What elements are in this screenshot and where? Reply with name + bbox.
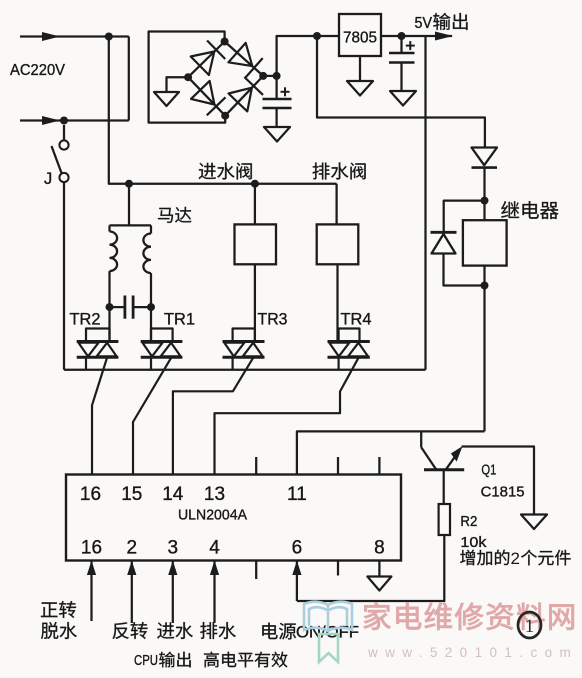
svg-text:7805: 7805 (343, 30, 377, 47)
node: motor left leg (106, 303, 114, 311)
node: inlet valve feed junction (251, 180, 259, 188)
watermark site name (364, 603, 574, 630)
svg-text:15: 15 (121, 484, 142, 505)
svg-text:6: 6 (292, 538, 303, 559)
svg-text:CPU: CPU (134, 653, 158, 669)
diode bridge D4 (bottom-right arm) (229, 77, 264, 111)
pin label 6 (292, 538, 303, 559)
wire: bridge diamond edges (188, 42, 263, 116)
label drain valve (313, 162, 366, 179)
wire: triac common rail to AC (64, 369, 426, 371)
label ULN2004A (178, 507, 247, 524)
triac TR4 (215, 329, 370, 475)
label TR1 (164, 311, 195, 329)
label AC220V (10, 62, 65, 79)
ground: bridge minus (154, 92, 179, 106)
label J (44, 170, 52, 188)
svg-text:TR2: TR2 (70, 311, 101, 329)
watermark book icon (304, 602, 352, 662)
regulator U2 7805 (339, 14, 381, 56)
valve V1 (jinshuifa inlet) (235, 184, 277, 342)
label C1815 (481, 484, 525, 501)
node: motor right leg (147, 303, 155, 311)
pin label 14 (162, 484, 184, 505)
node: bridge left (184, 73, 192, 81)
label inlet valve (199, 162, 252, 179)
ground: C1 (264, 127, 290, 142)
capacitor C3 (motor phase) (110, 296, 152, 319)
label TR2 (70, 311, 101, 329)
transistor Q1 C1815 (NPN) (421, 431, 464, 469)
svg-text:TR3: TR3 (258, 311, 288, 329)
label Q1 (481, 462, 496, 479)
pin label 15 (121, 484, 142, 505)
wire: CPU input forward/spin (87, 561, 96, 622)
label TR4 (341, 311, 372, 329)
label water-in (jinshui) (157, 622, 193, 639)
wire: CPU input drain (210, 561, 219, 624)
label motor (mada) (158, 207, 191, 223)
pin label 4 (209, 538, 220, 559)
label forward (zhengzhuan) (41, 601, 76, 618)
svg-text:J: J (44, 170, 52, 188)
wire: freewheel branch bottom (444, 254, 485, 286)
node: relay bottom junction (481, 282, 489, 290)
wire: D5 to relay top (483, 168, 485, 201)
svg-text:4: 4 (209, 538, 220, 559)
wire: switch to triac common rail (63, 182, 65, 370)
svg-text:5V: 5V (415, 15, 433, 32)
wire: AC line 1 (top) (20, 32, 129, 41)
pin stub top (pin 9) (378, 457, 380, 475)
svg-text:C1815: C1815 (481, 484, 525, 501)
svg-text:1: 1 (525, 616, 535, 637)
wire: pin 8 ground lead (378, 561, 380, 577)
label reverse (fanzhuan) (113, 622, 148, 639)
svg-text:3: 3 (168, 538, 179, 559)
svg-text:11: 11 (287, 484, 307, 505)
wire: CPU input water in (168, 561, 177, 624)
motor M (mada) windings (110, 225, 152, 307)
capacitor C2 (5V filter, electrolytic) (389, 36, 415, 91)
label 10k (460, 534, 487, 551)
svg-text:14: 14 (162, 484, 184, 505)
label spin (tuoshui) (41, 622, 77, 639)
ground: 7805 (347, 81, 373, 96)
triac TR1 (133, 329, 182, 475)
wire: motor legs to TR2/TR1 (110, 307, 152, 341)
node: bridge right (259, 72, 267, 80)
diode bridge D1 (left-top arm) (191, 41, 226, 76)
pin label 3 (168, 538, 179, 559)
figure number circled 1 (518, 612, 541, 638)
wire: Q1 emitter to ground (462, 447, 535, 515)
wire: 7805 output to 5V arrow (381, 32, 453, 41)
pin stub bottom (pin 5) (255, 561, 257, 580)
svg-text:AC220V: AC220V (10, 62, 65, 79)
pin stub top (pin 12) (255, 457, 257, 475)
svg-text:R2: R2 (460, 513, 477, 530)
svg-text:16: 16 (81, 538, 102, 559)
label drain (paishui) (200, 622, 236, 639)
svg-text:16: 16 (80, 484, 101, 505)
switch J (52, 125, 69, 182)
wire: bridge minus to ground (167, 77, 189, 92)
node: junction on AC line 2 at switch (60, 117, 68, 125)
svg-text:13: 13 (204, 484, 225, 505)
label added 2 components (460, 549, 570, 568)
pin label 8 (374, 538, 385, 559)
label TR3 (258, 311, 288, 329)
wire: bridge plus output up to 7805 input (263, 36, 339, 76)
svg-text:Q1: Q1 (481, 462, 496, 479)
svg-text:TR1: TR1 (164, 311, 195, 329)
wire: pin 11 to relay driver bus (297, 431, 485, 474)
capacitor C1 (bridge filter, electrolytic) (263, 76, 292, 127)
ground: C2 (390, 91, 416, 106)
svg-text:2: 2 (511, 549, 520, 568)
node: bridge top (221, 38, 229, 46)
pin label 16 (top) (80, 484, 101, 505)
resistor R2 (439, 504, 450, 535)
watermark url (367, 645, 578, 660)
node: relay top junction (481, 197, 489, 205)
node: junction on AC line 1 (105, 33, 113, 41)
wire: 5V tap down to triac rail (424, 36, 426, 370)
diode bridge D2 (top-right arm) (228, 43, 262, 78)
pin label 11 (287, 484, 307, 505)
wire: 7805 ground lead (359, 56, 361, 81)
node: bridge plus junction (273, 72, 281, 80)
node: motor feed junction (125, 180, 133, 188)
wire: motor feed (128, 184, 130, 226)
diode bridge D3 (left-bottom arm) (191, 81, 226, 115)
label power ON/OFF (262, 623, 359, 642)
pin label 16 (bottom) (81, 538, 102, 559)
label CPU output active-high (134, 652, 287, 669)
node: bridge bottom (221, 112, 229, 120)
relay coil K1 (463, 201, 507, 286)
label R2 (460, 513, 477, 530)
svg-text:10k: 10k (460, 534, 487, 551)
ground: IC pin 8 (367, 577, 391, 591)
wire: AC line 2 (bottom) (20, 116, 129, 125)
ground: Q1 emitter (521, 515, 547, 530)
diode D6 (freewheel, cathode up) (431, 232, 457, 253)
svg-text:8: 8 (374, 538, 385, 559)
wire: freewheel branch top (444, 201, 485, 233)
triac TR3 (173, 329, 265, 475)
triac TR2 (77, 329, 119, 475)
label relay (jidianqi) (501, 201, 558, 219)
pin stub top (pin 10) (337, 457, 339, 475)
wire: relay bottom to driver bus (483, 286, 485, 432)
diode D5 (relay supply) (472, 148, 498, 168)
wire: CPU input reverse (127, 561, 136, 624)
label 5V output (415, 13, 468, 32)
svg-text:www.520101.com: www.520101.com (367, 645, 578, 660)
wire: rectified supply to relay diode (317, 36, 485, 148)
pin label 2 (127, 538, 138, 559)
wire: phase feed down from AC line 1 to valve rail (109, 37, 337, 184)
wire: Q1 base lead (443, 470, 445, 504)
pin stub bottom (pin 7) (337, 561, 339, 576)
pin label 13 (204, 484, 225, 505)
wire: R2 to power ON/OFF input (297, 535, 444, 601)
svg-text:2: 2 (127, 538, 138, 559)
valve V2 (paishuifa drain) (317, 184, 359, 342)
node: 7805 input junction (313, 32, 321, 40)
wire: CPU input power ON/OFF to pin 6 (292, 561, 301, 602)
svg-text:ULN2004A: ULN2004A (178, 507, 247, 524)
wire: AC line 1 drop to neutral line (128, 37, 130, 121)
svg-text:TR4: TR4 (341, 311, 372, 329)
wire: bridge AC loop left/top (149, 32, 226, 123)
IC U1 ULN2004A (66, 475, 401, 561)
node: 5V output junction (398, 32, 406, 40)
